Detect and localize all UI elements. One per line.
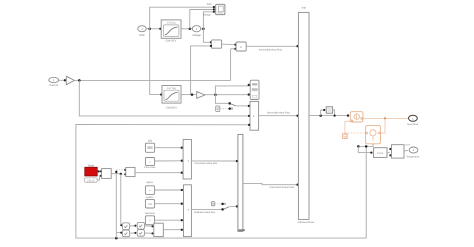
svg-text:Add: Add bbox=[302, 7, 307, 10]
wire h to mux1 bbox=[155, 147, 183, 149]
wire convection heat flux bbox=[191, 160, 238, 165]
product mux2 (radiation) bbox=[184, 185, 192, 237]
svg-text:PS-S: PS-S bbox=[378, 152, 384, 155]
inport SOC bbox=[138, 26, 146, 37]
node gain2 junction bbox=[214, 93, 217, 96]
svg-text:Reversible Heat Flow: Reversible Heat Flow bbox=[267, 111, 290, 114]
svg-text:Conv Area: Conv Area bbox=[144, 166, 156, 169]
wire riser to scope input 2 bbox=[190, 8, 215, 29]
svg-text:Voltage: Voltage bbox=[203, 14, 212, 17]
product P1 (reversible heat) bbox=[250, 101, 259, 130]
source Q1 (controlled heat flow, orange) bbox=[350, 112, 363, 122]
math power B2 (u^2) bbox=[137, 230, 144, 237]
wire lookup2 junction to D1 input 2 bbox=[191, 45, 213, 95]
wire Current to gain bbox=[59, 79, 67, 81]
svg-text:Irreversible Heat Flow: Irreversible Heat Flow bbox=[259, 49, 283, 52]
wire gain2 branch down to switch1 bbox=[215, 95, 229, 104]
inport Current bbox=[49, 77, 59, 87]
wire G1 output bbox=[111, 173, 126, 176]
wire mux2 to switch2 bbox=[191, 209, 222, 214]
wire sensor output (temperature signal) bbox=[357, 144, 373, 148]
constant Conv Area bbox=[145, 158, 154, 166]
svg-text:0.8: 0.8 bbox=[148, 203, 152, 206]
wire heat output (orange) bbox=[363, 117, 409, 119]
constant h bbox=[145, 143, 154, 152]
gain K2 (triangle) bbox=[197, 92, 205, 99]
node voltage junction bbox=[201, 28, 205, 31]
subtract G2 (Tcell - Tamb) bbox=[126, 167, 135, 176]
wire 273.15 to G1 bbox=[97, 175, 102, 180]
wire tall1 output bbox=[309, 114, 349, 116]
wire Tcell riser to G2 and A2 bbox=[115, 169, 126, 238]
wire branch up to E block input 1 bbox=[215, 84, 250, 95]
product D2 (x current) bbox=[236, 42, 246, 51]
switch SW1 bbox=[228, 102, 250, 110]
gain K1 (triangle) bbox=[66, 76, 74, 84]
sum tall1 (total heat) bbox=[298, 12, 309, 219]
wire gain2 output bbox=[205, 93, 250, 95]
svg-text:sigma: sigma bbox=[146, 181, 153, 184]
outport Heat Flow bbox=[407, 115, 418, 126]
outport Temperature bbox=[406, 147, 420, 158]
wire gain output to D2 (current horizontal) bbox=[74, 48, 236, 81]
svg-text:Heat Flow: Heat Flow bbox=[407, 123, 418, 126]
node temperature loop junction bbox=[115, 237, 118, 240]
svg-text:1-D T(u): 1-D T(u) bbox=[167, 87, 176, 90]
wire A1 to B1 bbox=[130, 225, 137, 227]
ground thermal reference (orange) bbox=[343, 134, 348, 139]
wire environment heat flow bbox=[243, 183, 299, 189]
wire reversible heat flow bbox=[259, 111, 299, 117]
svg-text:Convection Heat Flux: Convection Heat Flux bbox=[194, 162, 218, 165]
constant C2 (zero) bbox=[211, 202, 221, 206]
svg-text:Cell OCV: Cell OCV bbox=[166, 40, 177, 43]
math power A1 (u^2) bbox=[122, 223, 129, 230]
subsystem F (unit convert) bbox=[392, 144, 411, 158]
wire temperature loop to product input 3 bbox=[76, 124, 366, 238]
wire lookup2 to gain2 bbox=[181, 94, 196, 96]
svg-text:1-D T(u): 1-D T(u) bbox=[167, 22, 176, 25]
wire current down-branch to product bbox=[79, 80, 250, 117]
scope bbox=[216, 4, 225, 14]
svg-text:Rad Area: Rad Area bbox=[145, 212, 156, 215]
wire H to mux2 bbox=[163, 229, 183, 231]
lookup table Cell OCV (upper) bbox=[161, 20, 181, 38]
svg-text:Voltage: Voltage bbox=[192, 34, 201, 37]
node lookup2 output junction bbox=[191, 93, 194, 96]
wire B2 to H bbox=[144, 232, 153, 234]
wire D1 to D2 bbox=[222, 44, 237, 46]
wire F to Temperature port bbox=[404, 149, 408, 152]
svg-text:h(5): h(5) bbox=[148, 140, 152, 143]
svg-text:Temperature: Temperature bbox=[406, 155, 420, 158]
svg-text:Add Heat Flows: Add Heat Flows bbox=[298, 221, 316, 224]
value label 273.15 bbox=[85, 178, 98, 183]
wire Tamb branch down to A1 bbox=[120, 174, 122, 226]
svg-text:SOC: SOC bbox=[139, 34, 145, 37]
sum G1 (Tamb in K) bbox=[102, 169, 112, 179]
svg-text:Radiation Heat Flux: Radiation Heat Flux bbox=[194, 211, 216, 214]
svg-text:Environment Heat Flow: Environment Heat Flow bbox=[270, 186, 295, 189]
sum tall2 (environment heat) bbox=[238, 134, 243, 231]
subtract H (T^4 difference) bbox=[154, 223, 164, 236]
wire to PS-S converter bbox=[358, 146, 372, 153]
wire SOC riser (to scope and lookup2) bbox=[150, 6, 215, 96]
wire lookup1 to Voltage port bbox=[181, 28, 192, 30]
sensor T1 (temperature sensor, orange) bbox=[366, 125, 381, 143]
node lookup1 output junction bbox=[189, 28, 192, 31]
wire sigma to mux2 bbox=[155, 189, 183, 191]
label below sum tall2 bbox=[238, 229, 245, 230]
wire Rad Area to mux2 bbox=[155, 219, 183, 221]
wire irreversible heat flow bbox=[246, 45, 299, 52]
wire A2 to B2 bbox=[130, 232, 137, 234]
wire Conv Area to mux1 bbox=[155, 160, 183, 162]
constant C1 (zero) bbox=[216, 106, 229, 112]
constant sigma bbox=[145, 186, 154, 195]
converter S-PS U1 bbox=[321, 107, 336, 117]
wire source to thermal reference (orange) bbox=[345, 121, 350, 133]
wire G2 to mux1 bbox=[135, 172, 183, 174]
converter PS-S U2 bbox=[374, 148, 387, 158]
svg-text:Cell OCV: Cell OCV bbox=[166, 107, 177, 110]
wire B1 to H bbox=[144, 225, 153, 227]
constant Tamb (red block) bbox=[85, 167, 97, 176]
math power A2 (u^2) bbox=[122, 230, 129, 237]
node current junction bbox=[78, 79, 81, 82]
wire PS-S to F bbox=[387, 148, 392, 157]
outport Voltage bbox=[192, 26, 201, 37]
wire voltage to scope input 3 and to D1 bbox=[203, 11, 215, 44]
wire epsilon to mux2 bbox=[155, 203, 183, 205]
svg-text:SOC: SOC bbox=[207, 3, 212, 6]
svg-text:Tcell: Tcell bbox=[405, 144, 410, 147]
wire sensor B to heat wire (orange) bbox=[380, 118, 385, 133]
constant Rad Area bbox=[145, 216, 154, 225]
svg-text:Current: Current bbox=[49, 84, 58, 87]
math power B1 (u^2) bbox=[137, 222, 144, 229]
switch SW2 bbox=[221, 203, 238, 211]
subsystem E (dOCV/dT) bbox=[250, 80, 259, 99]
node SOC junction bbox=[148, 28, 151, 31]
constant epsilon bbox=[145, 199, 154, 208]
wire reference to sensor (orange dashed) bbox=[345, 132, 365, 134]
wire Tamb to G1 bbox=[98, 170, 103, 172]
wire SOC to lookup1 bbox=[146, 28, 161, 30]
lookup table Cell OCV (lower) bbox=[162, 86, 181, 104]
svg-text:epsilon: epsilon bbox=[146, 196, 154, 199]
svg-text:273.15: 273.15 bbox=[87, 180, 95, 183]
product mux1 (convection) bbox=[183, 140, 191, 180]
node S-PS tap bbox=[319, 114, 322, 117]
sum D1 (OCV - V) bbox=[211, 40, 221, 49]
